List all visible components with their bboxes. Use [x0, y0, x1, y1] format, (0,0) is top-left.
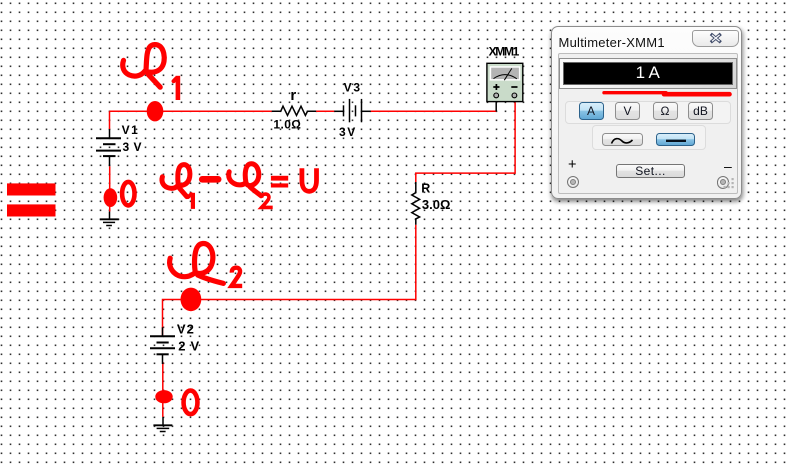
- svg-text:1.0Ω: 1.0Ω: [273, 118, 301, 132]
- svg-text:2 V: 2 V: [178, 339, 199, 354]
- svg-text:3.0Ω: 3.0Ω: [422, 197, 451, 212]
- svg-text:R: R: [421, 182, 430, 196]
- svg-text:3 V: 3 V: [339, 125, 355, 139]
- svg-text:XMM1: XMM1: [489, 44, 520, 58]
- svg-text:3 V: 3 V: [123, 140, 142, 154]
- svg-text:V2: V2: [177, 322, 194, 337]
- svg-text:r: r: [290, 87, 296, 104]
